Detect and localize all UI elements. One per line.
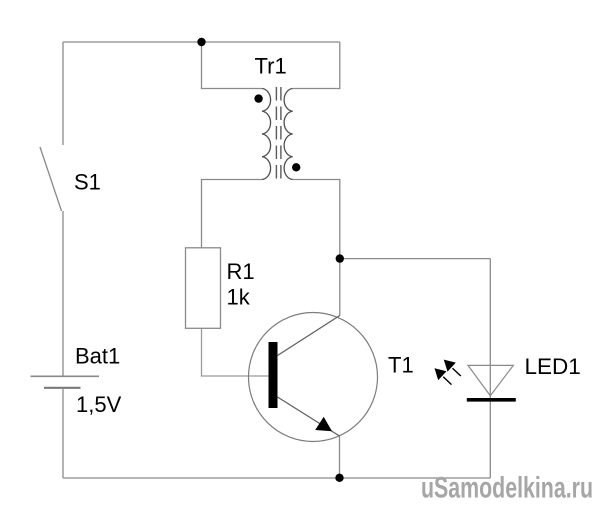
- transformer Tr1 primary winding: [262, 89, 271, 180]
- switch S1 blade: [40, 147, 62, 211]
- wire primary bottom to R1: [202, 180, 263, 249]
- wire R1 to base: [202, 328, 270, 376]
- svg-text:T1: T1: [388, 353, 414, 378]
- wire left vertical middle: [62, 211, 64, 376]
- junction node top: [197, 38, 205, 46]
- transformer Tr1 core: [276, 87, 281, 181]
- battery Bat1 plate long: [31, 375, 100, 377]
- junction node collector-LED: [336, 254, 344, 262]
- svg-text:S1: S1: [74, 170, 101, 195]
- transistor T1 emitter arrowhead: [315, 417, 332, 432]
- transformer Tr1 phase dot primary: [254, 94, 262, 102]
- resistor R1 body: [186, 248, 221, 328]
- wire transformer primary drop: [202, 42, 263, 89]
- svg-text:Bat1: Bat1: [75, 344, 120, 369]
- wire left vertical lower: [62, 388, 64, 478]
- svg-text:1k: 1k: [227, 285, 251, 310]
- svg-text:LED1: LED1: [525, 354, 581, 379]
- transformer Tr1 secondary winding: [284, 89, 293, 180]
- wire left vertical upper: [62, 42, 64, 145]
- wire LED vertical: [489, 259, 491, 478]
- wire top horizontal: [63, 41, 340, 43]
- transistor T1 collector line: [278, 316, 340, 356]
- transistor T1 circle: [249, 313, 378, 442]
- LED LED1 light arrow lower: [435, 368, 452, 384]
- LED LED1 cathode bar: [467, 398, 516, 402]
- svg-text:1,5V: 1,5V: [76, 392, 122, 417]
- wire LED branch horizontal: [340, 258, 491, 260]
- svg-text:R1: R1: [227, 259, 255, 284]
- wire transformer secondary top: [293, 42, 340, 89]
- wire secondary bottom to collector: [293, 180, 340, 316]
- transistor T1 emitter line: [278, 397, 340, 436]
- transistor T1 base bar: [269, 342, 278, 408]
- junction node emitter-bottom: [335, 474, 343, 482]
- wire emitter vertical: [339, 436, 341, 478]
- wire bottom horizontal: [63, 477, 490, 479]
- transformer Tr1 phase dot secondary: [292, 163, 300, 171]
- LED LED1 light arrow upper: [444, 360, 461, 376]
- LED LED1 triangle: [468, 365, 513, 395]
- svg-text:uSamodelkina.ru: uSamodelkina.ru: [421, 472, 593, 505]
- battery Bat1 plate short: [44, 387, 81, 389]
- svg-text:Tr1: Tr1: [255, 54, 287, 79]
